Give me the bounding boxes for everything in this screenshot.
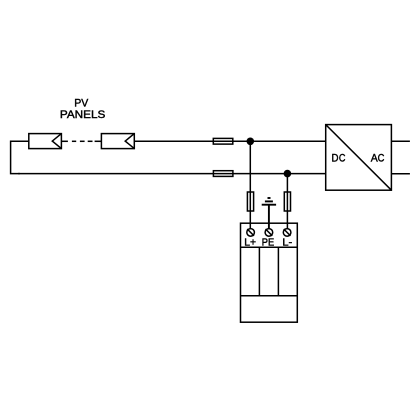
wire PE stem (ground to PE terminal) (268, 205, 270, 229)
fuse F3 (L+ drop) (247, 192, 253, 211)
wire top bus left segment + left return loop (11, 141, 29, 173)
terminal PE (262, 229, 275, 249)
svg-text:L-: L- (282, 237, 292, 248)
ground (earth symbol, inverted) (262, 198, 276, 205)
svg-text:PE: PE (262, 237, 275, 248)
label PV PANELS (60, 98, 105, 122)
wire drop to L- (286, 174, 288, 229)
node junction on top bus (247, 138, 255, 146)
fuse F4 (L- drop) (284, 192, 290, 211)
node junction on bottom bus (284, 170, 292, 178)
fuse F2 (bottom bus) (213, 171, 233, 177)
wire dashed string link (61, 140, 101, 142)
pv panel PV1 (29, 134, 62, 149)
wire bottom bus (18, 173, 326, 175)
wire AC output L (391, 140, 410, 142)
svg-text:C: C (378, 153, 385, 165)
surge arrester base divider (241, 295, 298, 297)
svg-text:D: D (332, 153, 339, 165)
terminal L- (282, 229, 292, 249)
surge arrester plug module divider 2 (277, 247, 279, 295)
inverter U1 (DC/AC converter) (326, 125, 392, 191)
wire drop to L+ (249, 141, 251, 229)
pv panel PV2 (101, 134, 134, 149)
surge arrester plug module divider 1 (258, 247, 260, 295)
fuse F1 (top bus) (213, 138, 233, 144)
surge arrester SPD outline (241, 223, 298, 322)
svg-text:C: C (339, 153, 346, 165)
terminal L+ (244, 229, 256, 249)
wire top bus middle segment (134, 140, 325, 142)
surge arrester terminal compartment divider (241, 246, 298, 248)
svg-text:PV: PV (74, 98, 89, 110)
svg-text:PANELS: PANELS (60, 109, 105, 121)
wire AC output N (391, 173, 410, 175)
svg-text:L+: L+ (244, 237, 256, 248)
